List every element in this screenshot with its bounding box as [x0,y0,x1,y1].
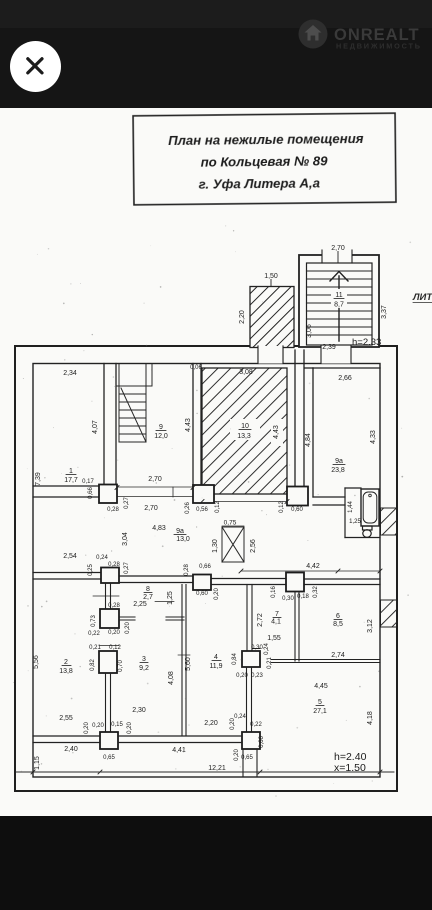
svg-text:12,21: 12,21 [208,765,226,772]
underlines for room numbers [62,430,345,706]
svg-text:2,72: 2,72 [257,613,264,627]
svg-text:0,22: 0,22 [250,722,262,728]
svg-text:0,24: 0,24 [264,643,270,655]
pillar P10 [100,732,118,749]
porch hatched [250,287,294,348]
svg-text:8,5: 8,5 [333,621,343,628]
svg-text:0,18: 0,18 [297,594,309,600]
svg-text:0,66: 0,66 [199,564,211,570]
svg-text:5: 5 [318,699,322,706]
wall P9 down to P11 [247,667,252,732]
svg-text:3,06: 3,06 [306,324,313,338]
svg-text:1,30: 1,30 [212,539,219,553]
svg-text:8,7: 8,7 [334,302,344,309]
pillar P5 [193,575,211,591]
svg-text:0,60: 0,60 [291,507,303,513]
room 7 bottom door line 1,55 [252,648,260,650]
svg-text:3,04: 3,04 [122,532,129,546]
pillar P9 [242,651,260,667]
svg-text:5,56: 5,56 [33,655,40,669]
bottom interior wall H4 [33,736,242,743]
wall H3 rooms 6/5 [271,660,380,663]
svg-text:План на нежилые помещения: План на нежилые помещения [168,131,364,148]
wall room4 / rooms 7,5 [247,585,252,652]
svg-text:0,16: 0,16 [271,586,277,598]
svg-text:0,27: 0,27 [124,562,130,574]
svg-text:0,66: 0,66 [259,736,265,748]
svg-text:2: 2 [64,659,68,666]
middle wall H2 [33,573,380,585]
stair treads [307,271,373,335]
svg-text:0,75: 0,75 [224,520,237,527]
svg-text:0,28: 0,28 [107,507,119,513]
svg-text:0,20: 0,20 [92,723,104,729]
svg-text:4,33: 4,33 [370,430,377,444]
stair symbol in room 9 [119,364,146,442]
svg-text:2,66: 2,66 [338,375,352,382]
dim line 4,42 above right H2 [241,570,380,572]
svg-text:4,84: 4,84 [305,433,312,447]
svg-text:0,20: 0,20 [108,630,120,636]
svg-text:0,21: 0,21 [89,645,101,651]
svg-text:4,83: 4,83 [152,525,166,532]
staircase inner wall [307,263,373,345]
svg-text:2,20: 2,20 [239,310,246,324]
svg-text:0,65: 0,65 [241,755,253,761]
title box [133,113,396,205]
wall under top rooms: room1 bottom [33,486,99,497]
svg-text:1,55: 1,55 [267,635,281,642]
svg-text:0,22: 0,22 [88,631,100,637]
svg-text:0,12: 0,12 [279,501,285,513]
svg-text:0,32: 0,32 [313,586,319,598]
stair up arrow [330,272,348,342]
svg-text:2,20: 2,20 [204,720,218,727]
room 8 bottom wall [119,602,184,621]
pillar P7 [100,609,119,628]
svg-text:1,15: 1,15 [34,756,41,770]
stair room label 11 / 8,7 [331,289,347,309]
svg-text:0,12: 0,12 [109,645,121,651]
svg-text:4,45: 4,45 [314,683,328,690]
svg-text:0,15: 0,15 [111,722,123,728]
svg-text:0,56: 0,56 [196,507,208,513]
svg-text:2,7: 2,7 [143,594,153,601]
svg-text:0,73: 0,73 [91,615,97,627]
h=2.40 x=1.50 [334,751,367,774]
svg-text:11,9: 11,9 [209,663,222,670]
svg-text:17,7: 17,7 [64,477,78,484]
svg-text:7,39: 7,39 [35,472,42,486]
svg-text:2,70: 2,70 [331,245,345,252]
wall room3 / room4 [178,585,190,737]
svg-text:7: 7 [275,611,279,618]
toilet [363,526,373,537]
svg-text:1: 1 [69,468,73,475]
svg-text:0,20: 0,20 [125,622,131,634]
staircase top landing door [322,250,352,263]
svg-text:0,26: 0,26 [185,502,191,514]
door gap P7-P8, jamb ticks [100,645,119,647]
svg-text:6: 6 [336,613,340,620]
svg-text:4,07: 4,07 [92,420,99,434]
svg-text:h=2.33: h=2.33 [352,337,381,348]
wall between room 9 and room 10 [193,364,201,487]
svg-text:2,34: 2,34 [63,370,77,377]
ЛИТ. text right margin [412,292,432,303]
bottom corridor dimension line [16,771,394,773]
top black bar [0,0,432,108]
svg-text:0,24: 0,24 [234,714,246,720]
dim 1,50 above porch [264,273,278,286]
svg-text:0,28: 0,28 [184,564,190,576]
ONREALT logo top-right [299,20,422,51]
left spine wall P4 to P7 [93,583,119,609]
svg-text:1,44: 1,44 [348,501,354,513]
room 7 right wall [295,592,299,661]
svg-text:0,20: 0,20 [127,722,133,734]
hatched wall block right wall upper [381,508,397,535]
dimension lines corridor top [117,487,287,502]
pillar P1 [99,485,117,504]
wall stub below P11 [243,749,257,777]
svg-text:0,06: 0,06 [190,365,202,371]
svg-text:0,60: 0,60 [196,591,208,597]
svg-text:4,43: 4,43 [185,418,192,432]
svg-text:3,08: 3,08 [239,369,253,376]
svg-text:0,25: 0,25 [88,564,94,576]
staircase block outer wall [299,255,379,347]
svg-text:3,37: 3,37 [381,305,388,319]
svg-text:10: 10 [241,423,249,430]
close (X) button top-left [10,41,61,92]
svg-text:НЕДВИЖИМОСТЬ: НЕДВИЖИМОСТЬ [336,42,422,51]
svg-text:0,20: 0,20 [214,588,220,600]
svg-text:0,27: 0,27 [124,497,130,509]
svg-text:0,65: 0,65 [103,755,115,761]
svg-text:1,50: 1,50 [264,273,278,280]
svg-text:0,70: 0,70 [118,660,124,672]
svg-text:г. Уфа Литера А,а: г. Уфа Литера А,а [199,175,321,191]
svg-text:4,08: 4,08 [168,671,175,685]
wall right of room 10 [295,350,304,487]
porch door opening in top wall [258,346,283,364]
svg-text:по Кольцевая № 89: по Кольцевая № 89 [201,153,329,169]
svg-text:23,8: 23,8 [331,467,345,474]
svg-text:2,56: 2,56 [250,539,257,553]
svg-text:0,66: 0,66 [88,487,94,499]
svg-text:13,3: 13,3 [237,433,251,440]
svg-text:3: 3 [142,656,146,663]
svg-text:4: 4 [214,654,218,661]
pillar P3 [287,487,308,506]
svg-text:2,70: 2,70 [148,476,162,483]
svg-text:0,82: 0,82 [90,659,96,671]
svg-text:11: 11 [335,292,342,299]
svg-text:4,18: 4,18 [367,711,374,725]
svg-text:0,30: 0,30 [282,596,294,602]
svg-text:9а: 9а [176,528,184,535]
svg-text:4,1: 4,1 [271,619,281,626]
room 9a bottom wall [313,497,345,505]
room 9a left wall [305,368,314,497]
svg-text:12,0: 12,0 [154,433,168,440]
bathtub [361,489,379,526]
svg-text:1,25: 1,25 [167,591,174,605]
svg-text:0,20: 0,20 [236,673,248,679]
svg-text:2,40: 2,40 [64,746,78,753]
shower box with X in corridor [222,527,244,562]
svg-text:1,25: 1,25 [349,519,361,525]
svg-text:2,55: 2,55 [59,715,73,722]
dimension end ticks [31,486,382,775]
svg-text:4,42: 4,42 [306,563,320,570]
svg-text:8: 8 [146,586,150,593]
svg-text:27,1: 27,1 [313,708,327,715]
svg-text:0,30: 0,30 [251,645,263,651]
closet box in room 9 top [116,364,152,386]
svg-text:2,39: 2,39 [322,344,336,351]
svg-text:0,12: 0,12 [215,501,221,513]
building exterior wall inner edge [33,364,380,778]
svg-text:2,25: 2,25 [133,601,147,608]
svg-text:13,8: 13,8 [59,668,73,675]
svg-text:2,30: 2,30 [132,707,146,714]
svg-text:13,0: 13,0 [176,536,190,543]
svg-text:0,21: 0,21 [267,657,273,669]
svg-text:0,23: 0,23 [251,673,263,679]
room 9a top wall inner line [313,367,380,369]
svg-text:0,20: 0,20 [230,718,236,730]
svg-text:4,43: 4,43 [273,425,280,439]
svg-text:0,20: 0,20 [234,749,240,761]
scan noise specks [13,225,411,797]
pillar P2 [193,485,214,503]
svg-text:0,84: 0,84 [232,653,238,665]
svg-text:0,28: 0,28 [108,562,120,568]
svg-text:9,2: 9,2 [139,665,149,672]
hatched wall block right wall lower [381,600,397,627]
wall between room 1 and room 9 [104,364,116,487]
svg-text:ЛИТ.: ЛИТ. [412,292,432,303]
room 10 hatched floor [202,368,287,494]
pillar P11 [242,732,260,749]
dim 2,70 above staircase [331,245,345,262]
svg-text:2,54: 2,54 [63,553,77,560]
bath nook walls [345,488,380,538]
pillar P6 [286,573,304,592]
svg-text:0,28: 0,28 [108,603,120,609]
staircase door opening in top wall [321,346,351,364]
svg-text:2,70: 2,70 [144,505,158,512]
pillar P8 [99,651,117,673]
pillar P4 [101,568,119,584]
building exterior wall outer edge [15,346,397,791]
svg-text:0,20: 0,20 [84,722,90,734]
dim 0,75 above shower [222,520,244,527]
svg-text:2,74: 2,74 [331,652,345,659]
left spine wall P8 to P10 [106,673,111,732]
svg-text:3,12: 3,12 [367,619,374,633]
svg-text:x=1.50: x=1.50 [334,762,366,774]
svg-text:9: 9 [159,424,163,431]
svg-text:5,60: 5,60 [185,657,192,671]
svg-text:0,17: 0,17 [82,479,94,485]
bottom black bar [0,816,432,910]
svg-text:0,24: 0,24 [96,555,108,561]
svg-text:9а: 9а [335,458,343,465]
